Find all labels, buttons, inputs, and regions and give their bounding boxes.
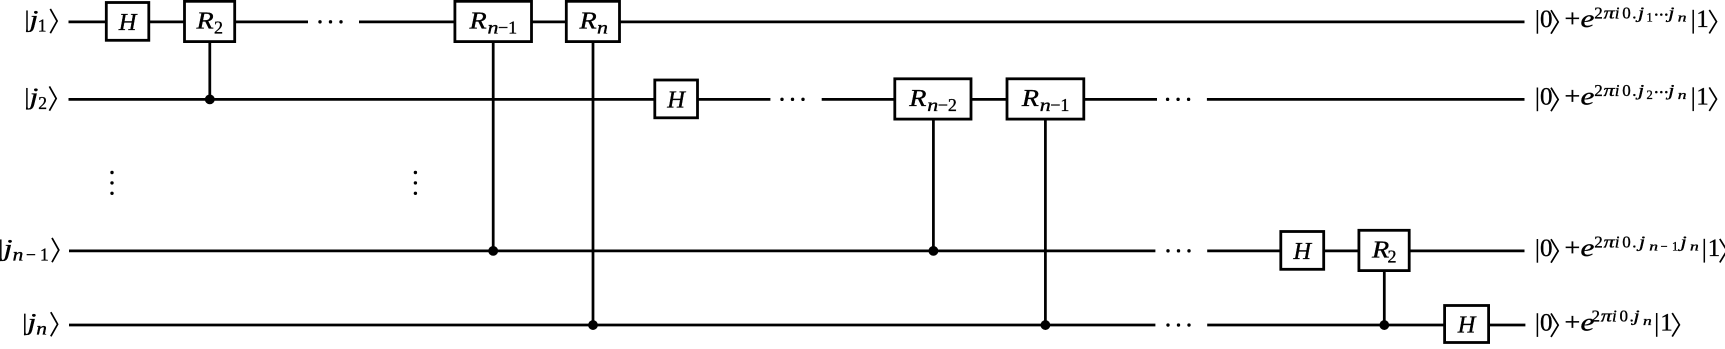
svg-text:0: 0 — [1540, 6, 1553, 33]
input ket jn — [23, 309, 58, 339]
svg-text:0: 0 — [1622, 81, 1631, 100]
output state qn — [1537, 307, 1679, 337]
cdots ellipsis wire q1 — [318, 20, 342, 23]
svg-text:R: R — [1021, 84, 1039, 112]
svg-text:+: + — [1565, 82, 1581, 110]
svg-text:R: R — [468, 6, 486, 34]
svg-text:2: 2 — [1647, 88, 1653, 102]
svg-text:.: . — [1632, 3, 1636, 22]
control wire Rn-1 q2 -> qn — [1044, 119, 1047, 325]
svg-text:H: H — [666, 86, 686, 113]
cdots in superscript q1 — [1655, 13, 1668, 16]
svg-text:+: + — [1565, 5, 1581, 33]
svg-text:2: 2 — [1594, 3, 1603, 22]
svg-text:1: 1 — [1708, 235, 1721, 262]
svg-text:0: 0 — [1540, 84, 1553, 111]
cdots ellipsis wire q2 right — [1166, 98, 1190, 101]
svg-text:−: − — [1661, 240, 1668, 254]
wire qn-1 segment b — [1207, 249, 1524, 252]
svg-text:n: n — [1678, 11, 1687, 25]
svg-text:+: + — [1565, 308, 1581, 336]
svg-text:−1: −1 — [498, 17, 517, 37]
svg-text:−2: −2 — [938, 95, 957, 115]
output state q2 — [1537, 81, 1716, 111]
wire q1 segment b — [359, 20, 1525, 23]
svg-text:H: H — [1457, 311, 1477, 338]
svg-text:0: 0 — [1540, 309, 1553, 336]
svg-text:n: n — [36, 320, 47, 339]
control dot on qn for Rn — [588, 320, 598, 330]
svg-text:2: 2 — [1388, 246, 1397, 266]
svg-text:H: H — [118, 9, 138, 36]
svg-text:n: n — [597, 18, 608, 38]
svg-text:−: − — [26, 244, 36, 264]
input ket j2 — [25, 84, 56, 113]
svg-text:1: 1 — [1647, 11, 1653, 25]
input ket j1 — [25, 6, 57, 35]
wire qn-1 segment a — [69, 249, 1155, 252]
gate H q2 box — [655, 80, 698, 118]
svg-text:n: n — [1690, 240, 1699, 254]
svg-text:n: n — [1678, 88, 1687, 102]
control dot on qn for Rn-1 — [1041, 320, 1051, 330]
wire q2 segment c — [1207, 98, 1525, 101]
svg-text:n: n — [1040, 96, 1051, 116]
cdots ellipsis wire qn-1 — [1166, 249, 1190, 252]
svg-text:e: e — [1581, 235, 1595, 262]
svg-text:n: n — [488, 18, 499, 38]
cdots in superscript q2 — [1655, 91, 1668, 94]
svg-text:2: 2 — [214, 17, 223, 37]
input ket jn-1 — [0, 235, 59, 265]
svg-text:R: R — [578, 6, 596, 34]
svg-text:0: 0 — [1622, 3, 1631, 22]
svg-text:−1: −1 — [1050, 95, 1069, 115]
svg-text:+: + — [1565, 234, 1581, 262]
svg-text:R: R — [195, 6, 213, 34]
control wire R2 q1 -> q2 — [208, 42, 211, 100]
gate H q1 box — [106, 3, 149, 41]
control wire Rn-1 q1 -> qn-1 — [492, 42, 495, 251]
svg-text:0: 0 — [1620, 307, 1629, 326]
output state qn-1 — [1537, 232, 1725, 262]
svg-text:H: H — [1292, 238, 1312, 265]
svg-text:n: n — [927, 96, 938, 116]
gate Rn-2 q2 box — [895, 79, 971, 119]
svg-text:2: 2 — [1592, 307, 1601, 326]
svg-text:n: n — [13, 246, 24, 265]
svg-text:2: 2 — [1594, 81, 1603, 100]
control wire Rn q1 -> qn — [592, 42, 595, 325]
vdots between q2 and qn-1 right — [414, 171, 417, 195]
svg-text:i: i — [1612, 307, 1617, 326]
svg-text:1: 1 — [40, 244, 49, 264]
svg-text:.: . — [1632, 81, 1636, 100]
svg-text:0: 0 — [1540, 235, 1553, 262]
gate Rn-1 q2 box — [1007, 79, 1084, 119]
wire q2 segment a — [69, 98, 771, 101]
gate H qn-1 box — [1281, 232, 1324, 270]
svg-text:1: 1 — [1696, 6, 1709, 33]
svg-text:e: e — [1581, 6, 1595, 33]
control dot on qn for R2 — [1379, 320, 1389, 330]
gate R2 q1 box — [185, 1, 235, 41]
svg-text:1: 1 — [1672, 240, 1678, 254]
svg-text:2: 2 — [1594, 232, 1603, 251]
wire q1 segment a — [69, 20, 309, 23]
cdots ellipsis wire q2 left — [780, 98, 804, 101]
svg-text:1: 1 — [38, 15, 47, 35]
svg-text:.: . — [1632, 232, 1636, 251]
wire qn segment a — [69, 324, 1155, 327]
control dot on qn-1 for Rn-1 — [488, 246, 498, 256]
svg-text:e: e — [1581, 83, 1595, 110]
control dot on q2 for R2 — [205, 94, 215, 104]
svg-text:1: 1 — [1696, 84, 1709, 111]
svg-text:R: R — [1371, 235, 1389, 263]
svg-text:1: 1 — [1660, 309, 1673, 336]
svg-text:2: 2 — [38, 93, 47, 113]
control wire R2 qn-1 -> qn — [1383, 271, 1386, 325]
vdots between q2 and qn-1 left — [110, 171, 113, 195]
output state q1 — [1537, 3, 1716, 33]
cdots ellipsis wire qn — [1166, 323, 1190, 326]
svg-text:i: i — [1615, 81, 1620, 100]
gate R2 qn-1 box — [1359, 230, 1409, 270]
svg-text:n: n — [1649, 240, 1658, 254]
svg-text:0: 0 — [1622, 232, 1631, 251]
svg-text:i: i — [1615, 3, 1620, 22]
gate Rn-1 q1 box — [455, 1, 532, 41]
wire q2 segment b — [822, 98, 1157, 101]
svg-text:R: R — [908, 84, 926, 112]
svg-text:n: n — [1643, 314, 1652, 328]
svg-text:i: i — [1615, 232, 1620, 251]
gate H qn box — [1445, 306, 1489, 343]
gate Rn q1 box — [566, 1, 619, 41]
wire qn segment b — [1207, 324, 1525, 327]
control dot on qn-1 for Rn-2 — [929, 246, 939, 256]
control wire Rn-2 q2 -> qn-1 — [932, 119, 935, 251]
